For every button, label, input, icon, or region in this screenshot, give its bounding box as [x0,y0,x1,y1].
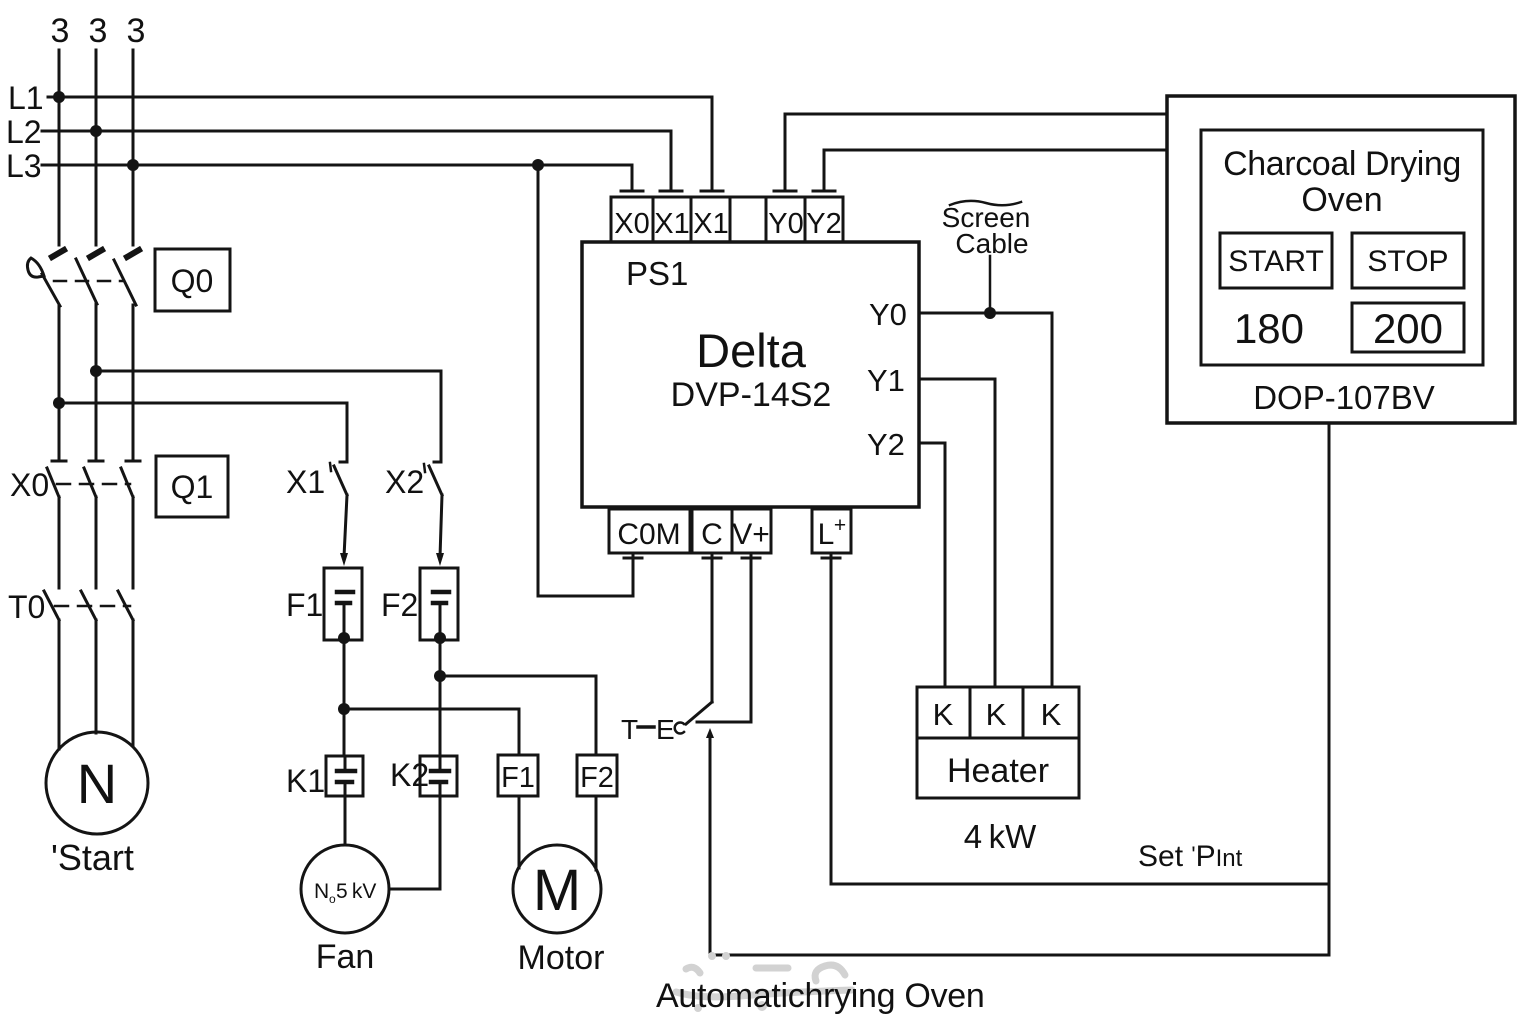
svg-text:K2: K2 [390,757,429,793]
breaker Q1 pole 1 top cap [52,460,66,463]
wire overload F2 to motor [595,796,598,870]
svg-text:X0: X0 [614,208,649,240]
terminal X0 box [611,197,653,242]
svg-text:C0M: C0M [617,518,680,551]
svg-text:V+: V+ [732,518,770,551]
wire phase 3 below Q0 [132,305,135,459]
svg-text:200: 200 [1373,305,1443,352]
terminal COM box [609,509,690,553]
coil K2 box [420,756,457,796]
fuse F1 element lower dash [337,601,350,606]
wire phase 2 T0 to motor N [95,620,98,733]
svg-text:X1: X1 [654,208,689,240]
fuse F1 element upper dash [337,590,353,595]
svg-text:5 kV: 5 kV [336,880,376,903]
wire thermocouple signal down and right [710,736,1329,955]
terminal blank box [730,197,766,242]
contact X1 tick [330,463,331,471]
wire K1 stem into box [344,756,347,796]
breaker Q1 linkage dashed [57,483,130,486]
svg-text:Q1: Q1 [171,469,214,505]
svg-text:Delta: Delta [696,324,807,377]
svg-text:K: K [933,697,954,732]
PLC U1 main box [582,242,919,507]
wire Y1 to heater K2 [919,379,995,687]
svg-text:Q0: Q0 [171,263,214,299]
wire phase 1 T0 to motor N [58,620,61,749]
terminal C box [692,509,732,553]
svg-text:N: N [314,880,329,903]
wire F2 to K2 [439,638,442,756]
disconnect Q0 pole 2 contact tick [90,250,102,257]
terminal X2 box (labelled X1) [691,197,730,242]
svg-text:F2: F2 [580,762,614,794]
disconnect Q0 pole 1 contact tick [52,250,64,257]
svg-text:T0: T0 [8,589,45,625]
wire phase 1 vertical feeder [58,50,61,245]
cap X0 terminal [621,190,643,193]
breaker Q1 pole 2 top cap [89,460,103,463]
box Q1 [156,456,228,517]
arrow into F1 [340,553,348,566]
terminal Y2 box (top) [805,197,843,242]
svg-text:o: o [329,892,336,906]
watermark [676,965,852,997]
motor M circle [513,845,601,933]
contact T0 pole 2 blade [81,591,96,620]
svg-text:M: M [533,858,581,923]
disconnect Q0 pole 3 blade [114,260,136,305]
svg-text:X1: X1 [693,208,728,240]
svg-text:Y1: Y1 [867,363,905,398]
svg-text:L3: L3 [6,148,42,184]
coil K1 lower dash [337,780,352,785]
svg-text:Motor: Motor [518,939,605,977]
svg-text:K: K [986,697,1007,732]
wire phase 1 below Q0 [58,306,61,459]
wire fan to K2 branch [389,796,440,889]
node F2 branch to overload F2 [434,670,446,682]
fuse F2 element upper dash [433,590,449,595]
box Q0 [155,249,230,311]
cap X2 terminal [701,190,723,193]
coil K1 box [326,756,363,796]
wire phase 2 below Q0 [95,304,98,459]
svg-text:PS1: PS1 [626,255,688,292]
wire L+ set point [831,883,1329,886]
svg-text:L2: L2 [6,114,42,150]
disconnect Q0 pole 1 blade [42,274,60,306]
foot COM terminal [624,553,642,596]
overload F1 box [498,755,538,796]
coil K1 upper dash [337,769,355,774]
svg-text:C: C [701,518,723,551]
contact T0 pole 1 blade [44,591,59,620]
wire Y0 terminal to HMI [774,114,1167,191]
fuse F1 box [324,568,362,640]
svg-text:Set 'PInt: Set 'PInt [1138,840,1243,873]
disconnect Q0 pole 2 blade [76,259,97,304]
wire bus L2 [42,130,671,133]
svg-text:L1: L1 [8,80,44,116]
node F1 bottom [338,632,350,644]
breaker Q1 pole 2 blade [84,468,96,497]
foot V+ terminal [742,553,760,722]
disconnect Q0 linkage dashed [54,280,122,283]
svg-text:Y2: Y2 [806,208,841,240]
svg-text:3: 3 [51,12,70,50]
wire Y2 terminal to HMI [813,150,1167,191]
wire screen cable pointer [989,256,992,313]
HMI outer box [1167,96,1515,423]
wire F1 to K1 [343,638,346,756]
fuse F2 element lower dash [433,601,446,606]
svg-text:Charcoal Drying: Charcoal Drying [1223,145,1461,183]
wire HMI bottom drop [1328,423,1331,955]
wire Y0 to heater K3 [919,313,1052,687]
node screen cable tap [984,307,996,319]
wire branch phase2 to X2 contact [96,371,441,462]
coil K2 upper dash [431,769,449,774]
cap X1 terminal [660,190,682,193]
wire branch to overload F1 [344,709,519,755]
disconnect Q0 handle [27,258,44,277]
wire phase 3 T0 to motor N [132,620,135,746]
svg-text:N: N [77,752,117,815]
wire bus L1 [48,96,712,99]
node L3 to COM branch [532,159,544,171]
arrow thermocouple signal [706,728,714,738]
terminal Y0 box (top) [766,197,805,242]
svg-text:START: START [1228,245,1324,278]
wire phase 3 vertical feeder [132,50,135,245]
contact T0 pole 3 blade [118,591,133,620]
wire K2 stem into box [439,756,442,796]
svg-text:4 kW: 4 kW [964,818,1037,855]
svg-text:Y0: Y0 [869,297,907,332]
arrow into F2 [436,553,444,566]
button START box [1220,233,1332,288]
svg-text:E: E [656,714,675,745]
display 200 box [1352,303,1464,352]
breaker Q1 pole 3 blade [121,468,133,497]
thermocouple sensor circle [675,723,684,734]
breaker Q1 pole 3 top cap [126,460,140,463]
svg-text:X0: X0 [10,467,49,503]
wire L2 to X1 terminal [670,131,673,191]
fuse F2 element stem [439,603,442,637]
svg-text:F1: F1 [501,762,535,794]
coil K2 lower dash [431,780,446,785]
svg-text:F1: F1 [286,587,323,623]
svg-text:180: 180 [1234,305,1304,352]
wire phase 2 Q1 to T0 [95,497,98,588]
svg-text:T: T [621,714,638,745]
node L1 tap [53,91,65,103]
disconnect Q0 pole 3 contact tick [127,250,139,257]
breaker Q1 pole 1 blade [47,468,59,497]
wire branch phase1 to X1 contact [59,403,347,462]
wire phase 3 Q1 to T0 [132,497,135,588]
svg-text:Oven: Oven [1301,181,1382,219]
svg-text:L: L [818,518,835,551]
svg-text:Y2: Y2 [867,427,905,462]
svg-text:Y0: Y0 [768,208,803,240]
wire L1 to X2 terminal [711,97,714,191]
wire COM to L3 branch [538,165,633,596]
foot C terminal [703,553,721,702]
foot L+ terminal [822,553,840,884]
svg-text:F2: F2 [381,587,418,623]
contact X1 blade [334,466,347,495]
heater body box [917,738,1079,798]
wire Y2 to heater K1 [919,443,945,687]
svg-text:K1: K1 [286,763,325,799]
svg-text:+: + [834,514,846,537]
svg-text:'Start: 'Start [51,837,134,878]
contact X2 tick [424,464,425,472]
wire X1 fixed-terminal foot [340,461,347,464]
wire V+ stub left [697,721,751,724]
node phase2 to X2-branch [90,365,102,377]
svg-text:Cable: Cable [955,228,1028,259]
node F1 branch to overload F1 [338,703,350,715]
svg-text:DOP-107BV: DOP-107BV [1253,379,1435,416]
wire branch to overload F2 [440,676,596,755]
node phase1 to X1-branch [53,397,65,409]
fan circle [301,845,389,933]
squiggle over Screen [950,201,1021,205]
overload F2 box [577,755,617,796]
terminal V+ box [732,509,771,553]
svg-text:K: K [1041,697,1062,732]
wire bus L3 [42,164,632,167]
wire overload F1 to motor [518,796,521,868]
wire K1 to fan [344,796,347,845]
wire phase 1 Q1 to T0 [58,497,61,588]
motor N circle [46,732,148,834]
svg-text:Automatichrying Oven: Automatichrying Oven [656,977,985,1015]
svg-text:STOP: STOP [1367,245,1448,278]
svg-text:3: 3 [127,12,146,50]
svg-text:X2: X2 [385,464,424,500]
heater terminal K boxes [917,687,1079,738]
terminal X1 box [653,197,691,242]
svg-text:3: 3 [89,12,108,50]
fuse F2 box [420,568,458,640]
terminal L+ box [812,509,851,553]
svg-text:Heater: Heater [947,752,1049,790]
wire X2 fixed-terminal foot [434,461,441,464]
wire X1 to F1 [344,495,347,557]
svg-text:DVP-14S2: DVP-14S2 [671,376,832,414]
wire L3 to X0 terminal [631,165,634,191]
node F2 bottom [434,632,446,644]
thermocouple blade C to sensor [686,702,712,724]
contact T0 linkage dashed [55,605,130,608]
button STOP box [1352,233,1464,288]
contact X2 blade [429,466,442,495]
svg-text:X1: X1 [286,464,325,500]
wire X2 to F2 [440,495,442,557]
wire phase 2 vertical feeder [95,50,98,245]
fuse F1 element stem [343,603,346,637]
HMI screen inner box [1201,130,1483,365]
node L2 tap [90,125,102,137]
svg-text:Fan: Fan [316,938,375,976]
node L3 tap [127,159,139,171]
